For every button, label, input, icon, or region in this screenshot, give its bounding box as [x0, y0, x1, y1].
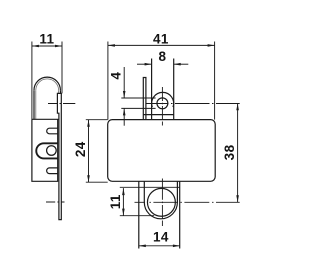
svg-text:11: 11: [39, 31, 54, 46]
dim 24 extension bottom: [86, 181, 108, 183]
dim 14 dimension line: [139, 245, 180, 247]
bottom vertical centerline: [161, 179, 163, 227]
clamp outer arc: [144, 182, 177, 219]
dim 8 dimension line + outside arrows: [137, 63, 152, 65]
dim 4 extension bottom: [121, 107, 155, 109]
centerline lower (side view): [46, 201, 65, 203]
arch right inner side: [58, 90, 60, 93]
upright bar: [143, 78, 146, 120]
dim 11 arrow right: [55, 45, 62, 48]
dim 11 dimension line: [32, 45, 62, 47]
centerline upper hole (side view): [48, 103, 75, 105]
arch right outer side: [59, 90, 61, 93]
lower box: [32, 119, 59, 181]
arch left outer side: [33, 90, 35, 119]
arch inner arc: [36, 79, 59, 90]
svg-text:24: 24: [73, 141, 88, 157]
dim 41 extension right: [214, 42, 216, 120]
svg-text:8: 8: [158, 49, 166, 64]
bottom tab left edge / 14 ext: [138, 181, 140, 248]
main body rounded rect: [108, 120, 216, 182]
dim 11 arrow left: [32, 45, 39, 48]
plate strip (edge view): [57, 93, 61, 219]
dim 24 dimension line: [88, 120, 90, 183]
dim 4 upper arrow (points down): [123, 67, 125, 98]
circle in tab 2: [47, 146, 57, 156]
svg-text:38: 38: [222, 144, 237, 160]
11 bottom extension: [120, 215, 154, 217]
bottom horizontal centerline (38 bottom ext): [135, 201, 240, 203]
dim 41 arrow right: [208, 44, 215, 47]
svg-text:41: 41: [153, 31, 169, 46]
band top line / 11 top ext: [120, 186, 180, 188]
hole horizontal centerline (38 top extension): [146, 103, 239, 105]
arch left inner side: [35, 90, 37, 119]
arch outer arc: [34, 77, 60, 90]
bottom tab right edge / 14 ext: [179, 181, 181, 248]
tab 1 small lanced tab: [47, 128, 58, 134]
dim 41 arrow left: [108, 44, 115, 47]
dim 11 (bottom) dimension line: [122, 188, 124, 216]
svg-text:14: 14: [153, 230, 169, 245]
tab 2 large stadium (thick): [36, 143, 57, 158]
dim 41 extension left: [107, 42, 109, 120]
svg-text:4: 4: [109, 72, 124, 80]
hole vertical centerline: [161, 87, 163, 126]
clamp inner circle: [147, 188, 175, 216]
bend line under tab: [143, 114, 173, 116]
small hole: [157, 98, 168, 109]
tab rounded top arc: [152, 92, 174, 107]
dim 11 extension line left: [31, 42, 33, 120]
dim 8 / tab left edge: [151, 59, 153, 120]
svg-text:11: 11: [108, 194, 123, 209]
dim 4 lower arrow (points up): [123, 108, 125, 125]
dim 8 / tab right edge: [173, 59, 175, 120]
dim 24 extension top: [86, 119, 108, 121]
tab 3 small lanced tab: [47, 168, 58, 174]
dim 38 dimension line: [237, 103, 239, 202]
dim 41 dimension line: [108, 44, 215, 46]
dim 4 extension top: [121, 97, 155, 99]
dim 11 extension line right: [61, 42, 63, 94]
